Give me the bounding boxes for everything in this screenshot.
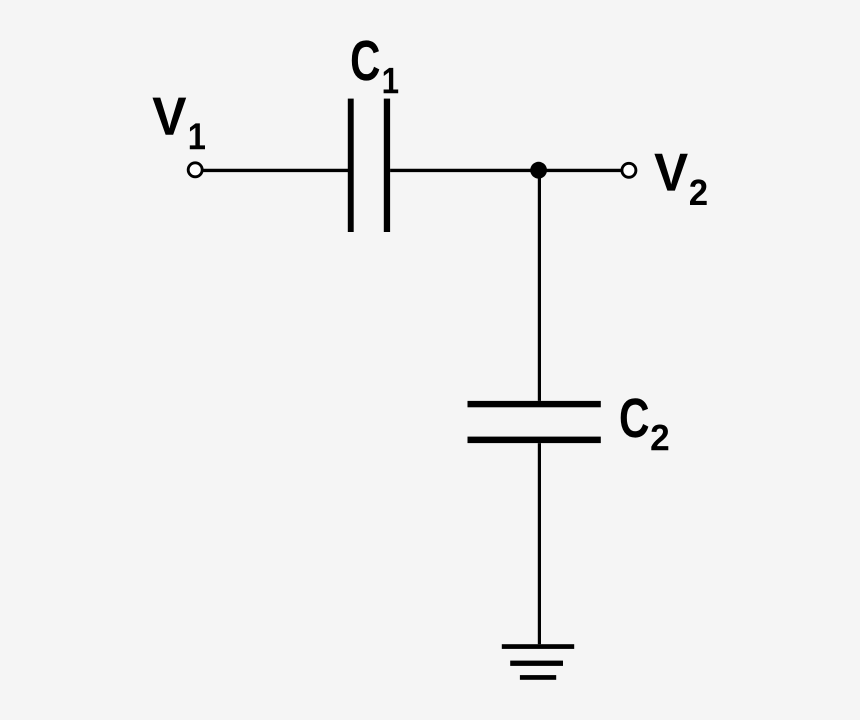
terminal V2 bbox=[622, 163, 636, 177]
wire bbox=[390, 169, 621, 172]
capacitor C2 bbox=[468, 401, 601, 443]
wire bbox=[203, 169, 349, 172]
label V1 bbox=[152, 98, 205, 150]
node A bbox=[530, 162, 547, 179]
wire bbox=[538, 170, 541, 401]
label C2 bbox=[621, 398, 669, 450]
capacitor C1 bbox=[348, 99, 390, 232]
label V2 bbox=[654, 154, 706, 205]
wire bbox=[538, 443, 541, 644]
terminal V1 bbox=[188, 163, 202, 177]
label C1 bbox=[352, 40, 398, 93]
ground bbox=[502, 644, 574, 680]
